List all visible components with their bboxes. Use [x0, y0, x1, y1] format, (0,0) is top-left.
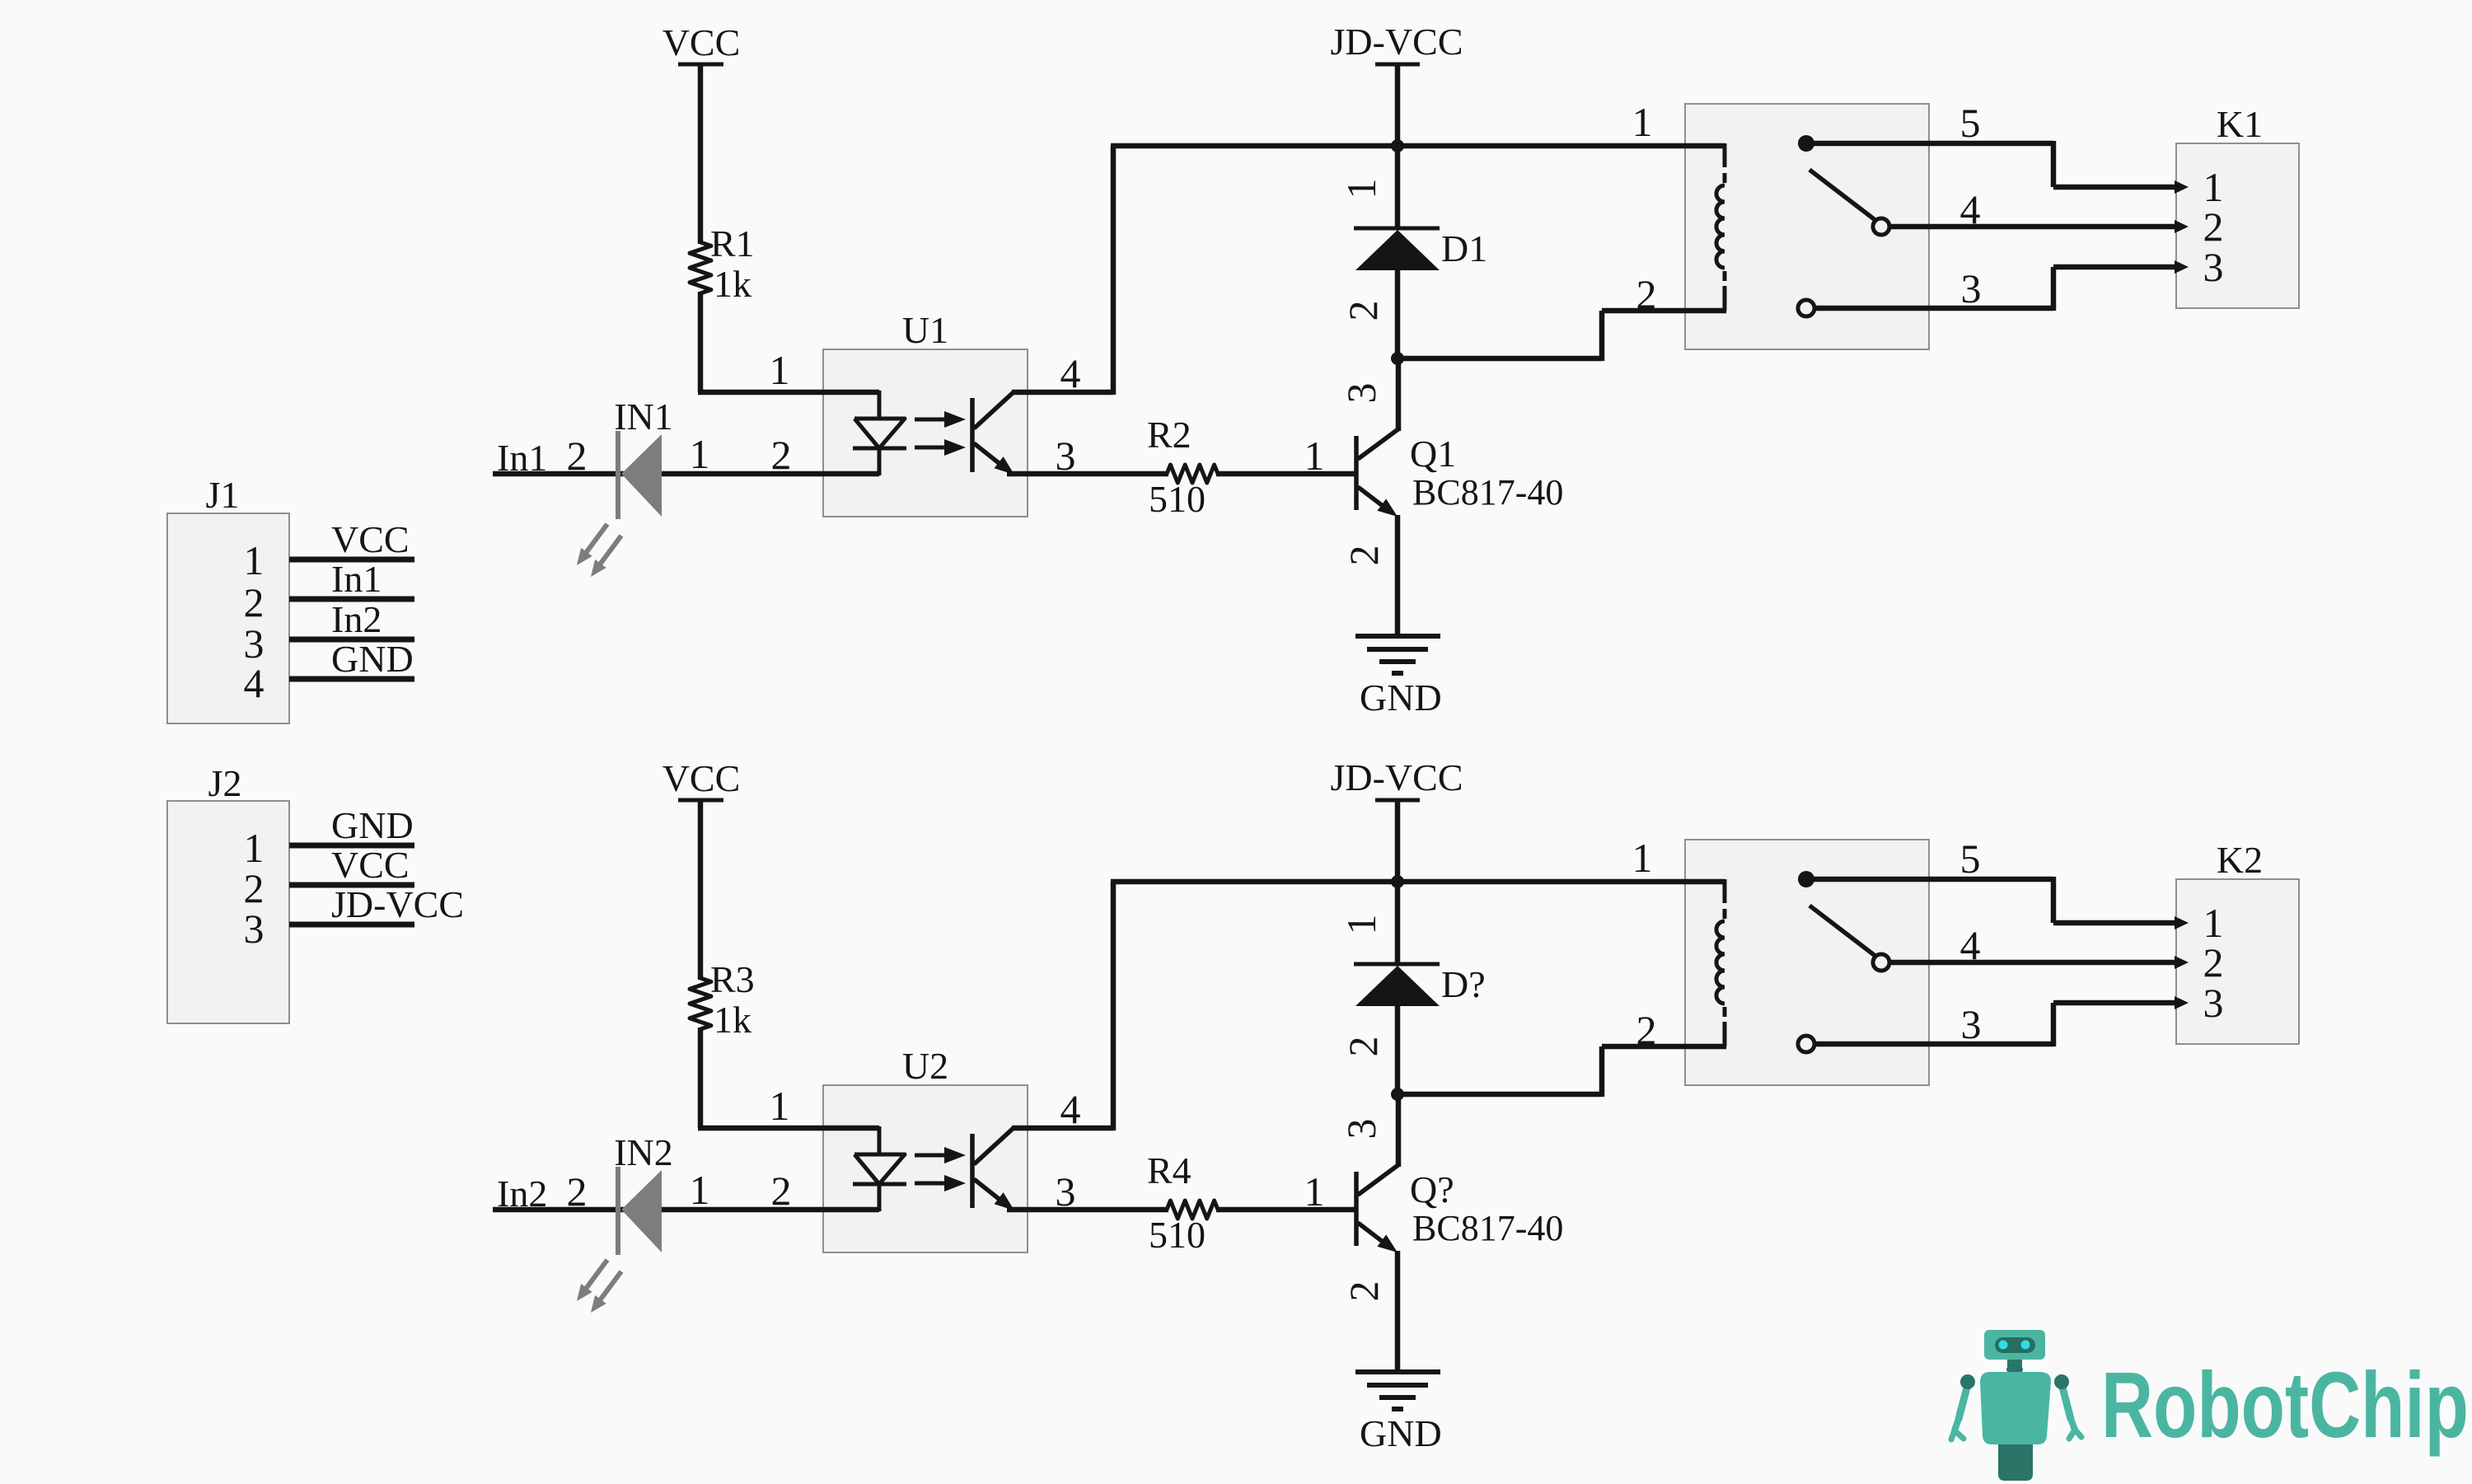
svg-text:3: 3 [244, 906, 265, 952]
svg-text:1k: 1k [714, 263, 751, 305]
svg-text:In2: In2 [331, 598, 382, 640]
power symbol VCC (channel 2) [662, 757, 741, 800]
J2 pin 3 wire / net JD-VCC [244, 883, 465, 952]
svg-text:2: 2 [244, 579, 265, 625]
relay NO contact circle (pin 3) [1798, 300, 1814, 316]
resistor R3 1k [690, 958, 755, 1041]
svg-text:In1: In1 [497, 437, 547, 479]
svg-text:1: 1 [1338, 179, 1384, 199]
relay common contact (pin 5) [1798, 135, 1814, 152]
wire R3 to U2 pin 1 [698, 1028, 879, 1128]
svg-text:VCC: VCC [662, 21, 741, 63]
J1 pin 1 wire / net VCC [244, 518, 415, 583]
transistor Q1 BC817-40 [1356, 428, 1563, 517]
svg-text:VCC: VCC [331, 844, 410, 886]
svg-text:1: 1 [1338, 915, 1384, 935]
svg-text:Q?: Q? [1410, 1168, 1454, 1210]
relay coil inductor [1716, 143, 1725, 311]
connector K1 body [2176, 103, 2299, 308]
svg-text:1: 1 [1632, 835, 1653, 881]
svg-text:4: 4 [244, 660, 265, 706]
RobotChip logo mascot [1951, 1330, 2081, 1481]
svg-text:5: 5 [1960, 836, 1981, 882]
wire R4 to Q? base [1216, 1207, 1356, 1213]
wire R2 to Q1 base [1216, 471, 1356, 477]
svg-text:R1: R1 [710, 222, 755, 264]
wire U2 pin 3 to R4 [1007, 1207, 1168, 1213]
transistor Q? BC817-40 [1356, 1164, 1563, 1252]
svg-text:3: 3 [2203, 980, 2224, 1026]
wire Q1 collector to junction [1396, 358, 1402, 431]
U1 phototransistor [972, 391, 1014, 475]
wire relay pin 5 to K1 pin 1 [1806, 141, 2189, 194]
wire relay pin 5 to K2 pin 1 [1806, 877, 2189, 929]
svg-text:1k: 1k [714, 999, 751, 1041]
connector J1 [167, 474, 289, 723]
svg-text:3: 3 [1338, 383, 1384, 404]
ground symbol (channel 1) [1355, 636, 1442, 719]
svg-text:2: 2 [567, 1168, 588, 1215]
svg-text:GND: GND [1360, 1412, 1442, 1454]
wire D1 anode to collector junction [1395, 269, 1401, 358]
relay switch arm [1810, 906, 1876, 957]
J1 pin 2 wire / net In1 [244, 558, 415, 625]
relay body (channel 1) [1685, 104, 1929, 349]
connector K2 body [2176, 839, 2299, 1044]
svg-text:1: 1 [1304, 1168, 1325, 1215]
wire U2 pin 4 to JD-VCC bus [1012, 882, 1113, 1131]
wire U1 pin 4 to JD-VCC bus [1012, 146, 1113, 395]
resistor R2 510 [1147, 414, 1218, 520]
wire JD-VCC bus (channel 2) [1111, 879, 1725, 885]
svg-text:2: 2 [567, 433, 588, 479]
svg-text:BC817-40: BC817-40 [1412, 472, 1563, 513]
svg-text:R3: R3 [710, 958, 755, 1000]
svg-text:IN1: IN1 [614, 396, 673, 438]
svg-text:510: 510 [1149, 1214, 1206, 1256]
relay common contact (pin 5) [1798, 871, 1814, 887]
svg-text:R4: R4 [1147, 1149, 1192, 1191]
LED IN1 (input indicator) [577, 396, 673, 577]
svg-text:5: 5 [1960, 100, 1981, 146]
svg-text:GND: GND [331, 804, 414, 846]
wire relay pin 4 to K2 pin 2 [1889, 956, 2189, 969]
wire D? anode to collector junction [1395, 1004, 1401, 1094]
power symbol JD-VCC (channel 2) [1330, 756, 1463, 882]
svg-text:2: 2 [771, 432, 792, 478]
svg-text:4: 4 [1060, 350, 1081, 396]
svg-text:2: 2 [1341, 1281, 1387, 1302]
wire JD-VCC to D1 cathode [1395, 146, 1401, 230]
J2 pin 1 wire / net GND [244, 804, 415, 871]
LED IN2 (input indicator) [577, 1131, 673, 1313]
resistor R1 1k [690, 222, 755, 305]
resistor R4 510 [1147, 1149, 1218, 1256]
wire relay pin 3 to K2 pin 3 [1814, 996, 2189, 1046]
power symbol VCC (channel 1) [662, 21, 741, 64]
relay NO contact circle (pin 3) [1798, 1036, 1814, 1052]
svg-text:2: 2 [1636, 1007, 1657, 1053]
junction D? / Q? collector / relay coil [1391, 1088, 1404, 1101]
wire relay pin 4 to K1 pin 2 [1889, 220, 2189, 233]
U2 internal LED [853, 1126, 906, 1211]
J1 pin 4 wire / net GND [244, 638, 415, 706]
svg-text:2: 2 [1340, 301, 1386, 321]
wire VCC to R1 [698, 64, 704, 244]
relay coil inductor [1716, 879, 1725, 1046]
svg-text:U1: U1 [902, 309, 948, 351]
svg-text:4: 4 [1060, 1086, 1081, 1132]
power symbol JD-VCC (channel 1) [1330, 21, 1463, 146]
svg-text:510: 510 [1149, 478, 1206, 520]
svg-text:RobotChip: RobotChip [2101, 1353, 2469, 1457]
svg-text:3: 3 [2203, 244, 2224, 290]
wire U1 pin 3 to R2 [1007, 471, 1168, 477]
svg-text:2: 2 [2203, 939, 2224, 985]
svg-text:4: 4 [1960, 186, 1981, 232]
U1 light arrows [915, 411, 966, 456]
relay NC contact circle (pin 4) [1873, 954, 1889, 971]
optocoupler U2 body [823, 1045, 1028, 1252]
svg-text:VCC: VCC [331, 518, 410, 560]
wire Q? emitter to GND [1395, 1251, 1401, 1372]
ground symbol (channel 2) [1355, 1372, 1442, 1454]
svg-text:JD-VCC: JD-VCC [1330, 21, 1463, 63]
svg-text:3: 3 [1338, 1119, 1384, 1140]
optocoupler U1 body [823, 309, 1028, 517]
svg-text:1: 1 [770, 1083, 790, 1129]
svg-text:1: 1 [690, 431, 710, 477]
relay NC contact circle (pin 4) [1873, 218, 1889, 235]
junction JD-VCC / D1 [1391, 139, 1404, 152]
svg-text:1: 1 [244, 537, 265, 583]
svg-text:VCC: VCC [662, 757, 741, 799]
svg-text:2: 2 [2203, 204, 2224, 250]
svg-text:1: 1 [1632, 99, 1653, 145]
svg-text:1: 1 [244, 825, 265, 871]
wire junction to relay coil pin 2 [1398, 311, 1726, 361]
wire JD-VCC to D? cathode [1395, 882, 1401, 966]
svg-text:IN2: IN2 [614, 1131, 673, 1173]
U2 light arrows [915, 1147, 966, 1191]
svg-text:R2: R2 [1147, 414, 1192, 456]
svg-text:D1: D1 [1441, 227, 1487, 269]
svg-text:1: 1 [770, 347, 790, 393]
wire junction to relay coil pin 2 [1398, 1046, 1726, 1097]
svg-text:J2: J2 [208, 762, 242, 804]
diode D? [1354, 963, 1486, 1006]
diode D1 [1354, 227, 1487, 270]
wire R1 to U1 pin 1 [698, 292, 879, 392]
connector J2 [167, 762, 289, 1023]
wire Q1 emitter to GND [1395, 515, 1401, 636]
J2 pin 2 wire / net VCC [244, 844, 415, 911]
svg-text:3: 3 [1961, 1001, 1982, 1047]
svg-text:BC817-40: BC817-40 [1412, 1208, 1563, 1248]
J1 pin 3 wire / net In2 [244, 598, 415, 667]
svg-text:2: 2 [1636, 271, 1657, 317]
wire In1 input line to U1 pin 2 [493, 471, 879, 477]
svg-text:3: 3 [1961, 265, 1982, 311]
svg-text:K2: K2 [2217, 839, 2263, 881]
relay body (channel 2) [1685, 840, 1929, 1085]
svg-text:Q1: Q1 [1410, 433, 1456, 475]
wire VCC to R3 [698, 800, 704, 980]
svg-text:JD-VCC: JD-VCC [331, 883, 464, 925]
svg-text:2: 2 [244, 865, 265, 911]
svg-text:4: 4 [1960, 922, 1981, 968]
svg-text:2: 2 [1340, 1037, 1386, 1057]
svg-text:K1: K1 [2217, 103, 2263, 145]
svg-text:2: 2 [771, 1168, 792, 1214]
svg-text:J1: J1 [206, 474, 240, 516]
wire Q? collector to junction [1396, 1094, 1402, 1167]
svg-text:2: 2 [1341, 545, 1387, 566]
svg-text:In1: In1 [331, 558, 382, 600]
relay switch arm [1810, 170, 1876, 221]
wire In2 input line to U2 pin 2 [493, 1207, 879, 1213]
svg-text:1: 1 [1304, 433, 1325, 479]
wire JD-VCC bus (channel 1) [1111, 143, 1725, 149]
U2 phototransistor [972, 1127, 1014, 1210]
junction D1 / Q1 collector / relay coil [1391, 352, 1404, 365]
svg-text:U2: U2 [902, 1045, 948, 1087]
svg-text:GND: GND [331, 638, 414, 680]
junction JD-VCC / D? [1391, 875, 1404, 888]
svg-text:D?: D? [1441, 963, 1486, 1005]
wire relay pin 3 to K1 pin 3 [1814, 260, 2189, 311]
U1 internal LED [853, 391, 906, 475]
svg-text:GND: GND [1360, 676, 1442, 719]
svg-text:1: 1 [690, 1167, 710, 1213]
svg-text:JD-VCC: JD-VCC [1330, 756, 1463, 798]
svg-text:In2: In2 [497, 1173, 547, 1215]
